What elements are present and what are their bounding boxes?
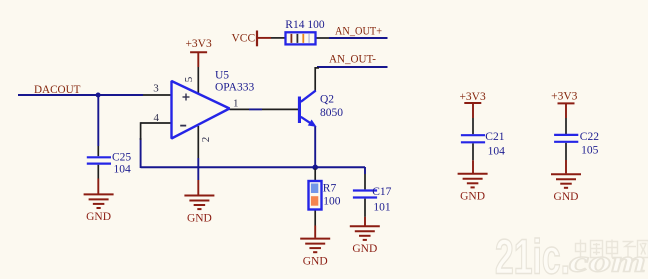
svg-text:AN_OUT+: AN_OUT+ — [335, 26, 382, 38]
svg-text:com: com — [569, 244, 646, 279]
svg-text:C21: C21 — [485, 131, 504, 143]
svg-text:C17: C17 — [372, 186, 391, 198]
svg-text:101: 101 — [373, 202, 391, 214]
svg-text:+3V3: +3V3 — [551, 90, 578, 102]
svg-text:R7: R7 — [323, 183, 337, 195]
svg-text:105: 105 — [581, 145, 599, 157]
svg-text:GND: GND — [303, 255, 328, 267]
svg-text:+3V3: +3V3 — [185, 38, 212, 50]
svg-text:8050: 8050 — [320, 107, 343, 119]
svg-text:4: 4 — [154, 112, 160, 124]
svg-text:+3V3: +3V3 — [459, 91, 486, 103]
svg-text:104: 104 — [114, 163, 132, 175]
svg-text:GND: GND — [86, 211, 111, 223]
svg-text:U5: U5 — [215, 70, 229, 82]
svg-text:R14 100: R14 100 — [285, 19, 325, 31]
svg-text:GND: GND — [187, 212, 212, 224]
svg-text:GND: GND — [460, 191, 485, 203]
svg-text:1: 1 — [233, 98, 239, 110]
svg-text:C25: C25 — [112, 152, 131, 164]
svg-text:2: 2 — [200, 137, 212, 143]
svg-text:104: 104 — [488, 146, 506, 158]
svg-text:3: 3 — [153, 83, 159, 95]
svg-text:Q2: Q2 — [320, 93, 334, 105]
svg-text:OPA333: OPA333 — [215, 82, 254, 94]
svg-text:100: 100 — [323, 196, 341, 208]
svg-text:DACOUT: DACOUT — [34, 84, 81, 96]
svg-text:GND: GND — [352, 243, 377, 255]
svg-text:GND: GND — [554, 191, 579, 203]
svg-text:C22: C22 — [580, 131, 599, 143]
svg-text:VCC: VCC — [232, 33, 256, 45]
svg-text:5: 5 — [183, 76, 195, 82]
svg-text:AN_OUT-: AN_OUT- — [329, 54, 376, 66]
svg-text:21ic.: 21ic. — [495, 231, 570, 279]
